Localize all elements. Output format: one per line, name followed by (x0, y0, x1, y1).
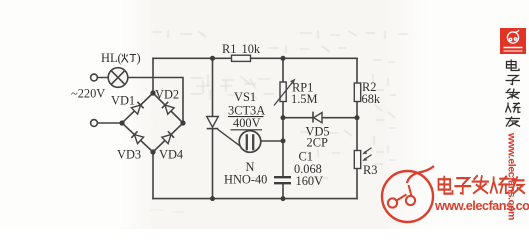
svg-text:10k: 10k (242, 42, 261, 56)
svg-text:R3: R3 (363, 163, 377, 177)
watermark logo circle (382, 166, 434, 222)
svg-text:HNO-40: HNO-40 (224, 173, 267, 187)
diode VD4 (162, 131, 174, 143)
label HL(灯) (101, 51, 141, 65)
svg-text:VD3: VD3 (117, 148, 141, 162)
wire VS1 branch upper (212, 58, 214, 116)
wire right branch upper (356, 58, 358, 83)
svg-text:2CP: 2CP (307, 136, 328, 150)
wire top-left to bridge top (152, 58, 154, 93)
resistor R1 (232, 55, 251, 61)
thyristor VS1 (207, 117, 241, 147)
watermark char 友 (511, 176, 525, 193)
bridge diamond (122, 93, 183, 152)
svg-text:VS1: VS1 (234, 90, 256, 104)
svg-text:VD1: VD1 (111, 94, 135, 108)
watermark char 发 (472, 175, 489, 193)
watermark char 烧 (490, 176, 509, 194)
svg-text:R1: R1 (222, 42, 236, 56)
terminal upper (91, 74, 98, 81)
watermark char 电 (438, 176, 452, 194)
wire terminal2 to bridge (98, 122, 123, 124)
svg-text:68k: 68k (362, 92, 381, 106)
resistor R2 (354, 83, 360, 102)
diode VD2 (162, 102, 174, 114)
svg-text:VD4: VD4 (159, 148, 183, 162)
svg-text:VD2: VD2 (155, 88, 179, 102)
lamp HL (108, 68, 128, 88)
photoresistor R3 (354, 148, 371, 169)
watermark banner char 发 (506, 89, 521, 99)
svg-text:www.elecfans.com: www.elecfans.com (434, 198, 529, 213)
terminal lower (91, 120, 98, 127)
wire top rail (153, 57, 357, 59)
diode VD5 (313, 112, 322, 123)
watermark side banner square (500, 28, 526, 54)
capacitor C1 (274, 177, 291, 183)
wire bottom rail (153, 198, 357, 200)
svg-text:): ) (137, 51, 141, 65)
diode VD3 (131, 131, 143, 143)
wire VD5 row (283, 117, 357, 119)
wire lamp row (98, 78, 184, 124)
svg-text:400V: 400V (233, 116, 261, 130)
wire VS1 branch lower (212, 129, 214, 199)
wire right branch lower (356, 169, 358, 199)
svg-text:160V: 160V (296, 174, 324, 188)
potentiometer RP1 (274, 79, 296, 106)
watermark char 子 (454, 178, 471, 194)
watermark banner char 友 (506, 117, 521, 127)
svg-text:~220V: ~220V (71, 87, 105, 101)
diode VD1 (131, 102, 143, 114)
wire bridge bottom to bottom rail (152, 152, 154, 199)
watermark banner char 电 (507, 60, 520, 71)
wire right branch mid (356, 102, 358, 151)
svg-text:HL(: HL( (101, 51, 122, 65)
watermark banner char 烧 (506, 103, 521, 113)
wire RP1/C1 branch (282, 58, 284, 198)
watermark banner char 子 (506, 76, 521, 85)
neon lamp N (239, 131, 283, 153)
svg-text:1.5M: 1.5M (291, 92, 318, 106)
